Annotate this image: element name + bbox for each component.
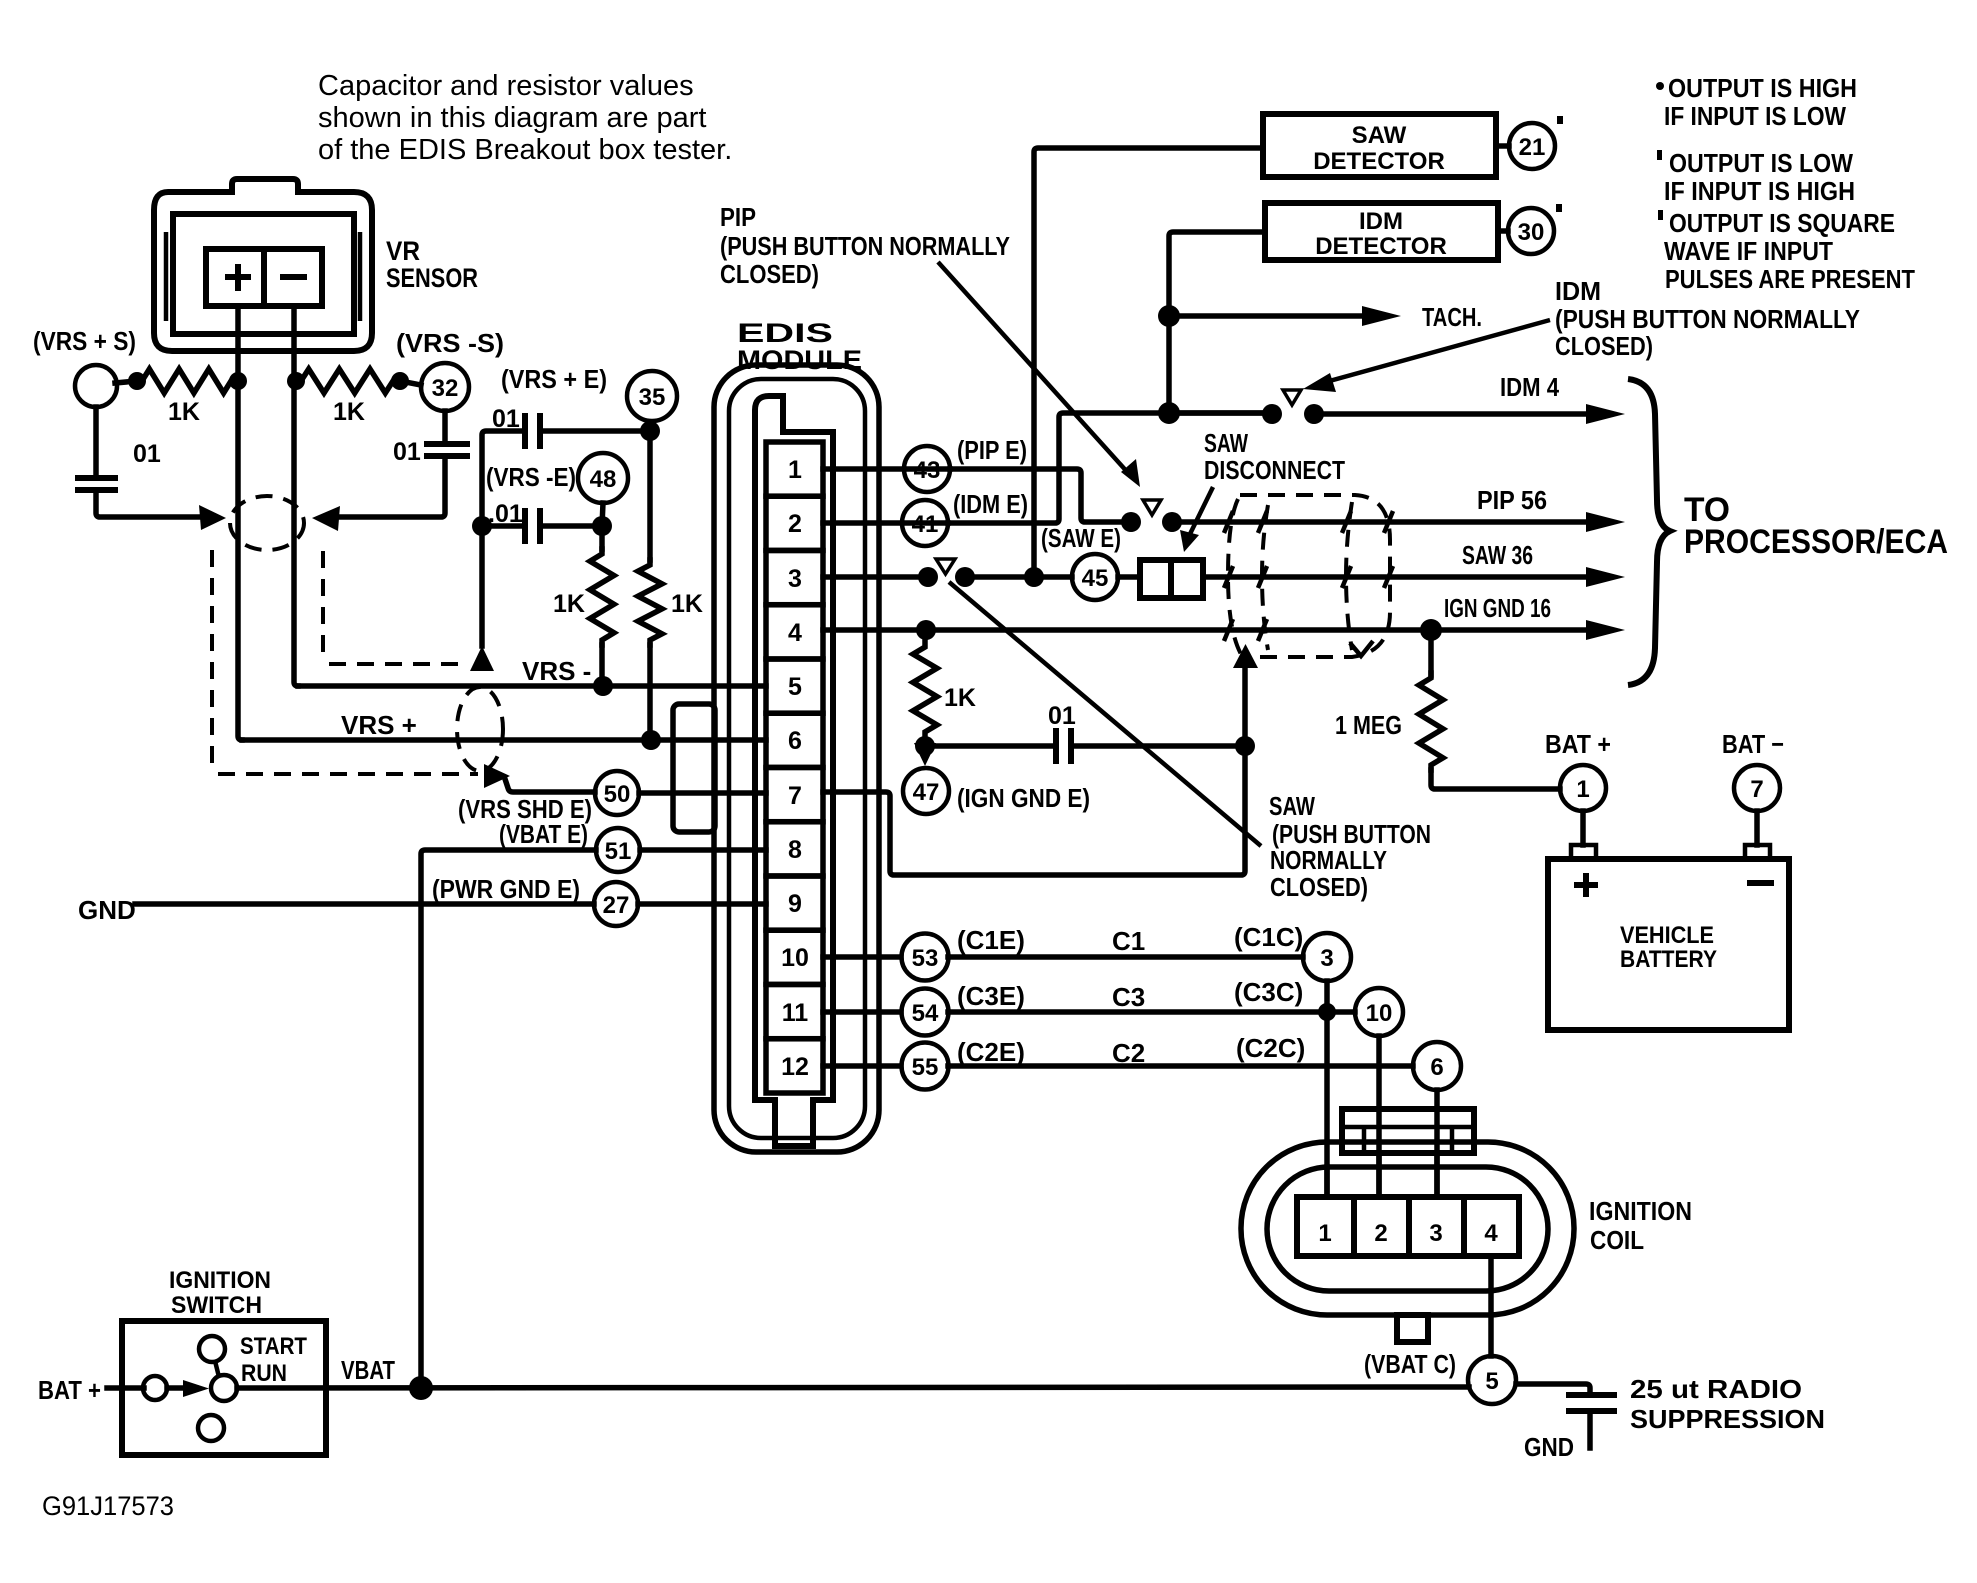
node dot PIP pushbutton right [1162, 512, 1182, 532]
arrowhead TACH [1362, 306, 1401, 326]
terminal circle 53 [902, 934, 949, 981]
EDIS connector second shell [729, 379, 865, 1138]
PIP pushbutton NC marker triangle [1143, 500, 1161, 515]
shield dashed ellipse around sensor wires [230, 496, 304, 550]
footnote mark circle 21 [1557, 116, 1563, 124]
capacitor C2 .01 right: lead [442, 411, 448, 444]
svg-text:RUN: RUN [241, 1360, 287, 1387]
wire VBAT E left and down to VBAT bus [421, 850, 596, 1388]
VR sensor inner housing [173, 214, 354, 334]
pin 12 box [766, 1039, 823, 1093]
svg-text:C1: C1 [1112, 926, 1145, 956]
node dot SAW wire / C5 [1235, 736, 1255, 756]
svg-text:53: 53 [912, 945, 939, 972]
wire circle 5 to radio suppression cap [1516, 1384, 1590, 1395]
svg-text:PROCESSOR/ECA: PROCESSOR/ECA [1684, 523, 1948, 561]
wire IDM detector to circle 30 [1498, 228, 1508, 234]
wire VRS+ bus to pin 6 [242, 737, 766, 743]
svg-text:51: 51 [605, 838, 632, 865]
svg-text:(IGN GND E): (IGN GND E) [957, 783, 1090, 813]
svg-text:47: 47 [913, 779, 940, 806]
svg-text:SAW 36: SAW 36 [1462, 540, 1533, 570]
terminal circle 1 (BAT+) [1560, 765, 1606, 811]
EDIS connector outer shell [714, 365, 879, 1152]
node dot VRS-E left [472, 516, 492, 536]
svg-text:GND: GND [1524, 1432, 1574, 1462]
wire SAW E line to circle 45 [965, 574, 1072, 580]
svg-text:IDM: IDM [1555, 276, 1601, 306]
VR sensor shell side flange marks [166, 232, 360, 321]
svg-text:01: 01 [393, 438, 421, 466]
svg-text:IF INPUT IS LOW: IF INPUT IS LOW [1664, 101, 1846, 131]
wire pin 4 (IGN GND) line [823, 627, 1590, 633]
svg-text:1: 1 [1318, 1220, 1331, 1247]
svg-text:GND: GND [78, 895, 136, 925]
svg-text:6: 6 [788, 727, 802, 755]
svg-text:43: 43 [914, 457, 941, 484]
terminal circle 41 (IDM E) [902, 500, 948, 546]
svg-text:4: 4 [1484, 1220, 1498, 1247]
IDM pushbutton pointer diagonal [1315, 320, 1550, 385]
svg-text:(VRS -S): (VRS -S) [396, 328, 504, 358]
VR sensor minus terminal mark [280, 274, 307, 280]
svg-text:6: 6 [1430, 1054, 1443, 1081]
capacitor C3 01: left corner + plates [482, 431, 522, 526]
wire pin 8 to circle 51 [640, 847, 766, 853]
wire circle7 to battery post [1754, 811, 1760, 845]
svg-text:10: 10 [1366, 1000, 1393, 1027]
terminal circle VRS+S probe [75, 365, 117, 407]
capacitor C2 .01 plates [424, 444, 470, 456]
node dot VBAT riser [409, 1376, 433, 1400]
svg-text:(C1E): (C1E) [957, 925, 1025, 955]
pin 7 box [766, 768, 823, 822]
node dot IDM pushbutton right [1304, 404, 1324, 424]
node dot under circle 35 [640, 421, 660, 441]
node dot R5 bottom [915, 736, 935, 756]
svg-text:7: 7 [788, 782, 802, 810]
svg-text:(C3C): (C3C) [1234, 977, 1303, 1007]
pin 1 box [766, 442, 823, 496]
terminal circle 43 (PIP E) [904, 446, 950, 492]
svg-text:DETECTOR: DETECTOR [1313, 148, 1445, 175]
SAW pushbutton pointer diagonal [949, 582, 1261, 846]
svg-text:shown in this diagram are part: shown in this diagram are part [318, 102, 706, 134]
svg-text:OUTPUT IS HIGH: OUTPUT IS HIGH [1668, 73, 1857, 103]
shield tube inner arc left [1262, 505, 1268, 650]
wire circle48 stub [602, 503, 603, 526]
note: capacitor/resistor values note [318, 70, 732, 166]
wire IDM E right and up to IDM 4 line [948, 413, 1263, 523]
svg-text:25 ut RADIO: 25 ut RADIO [1630, 1374, 1802, 1404]
svg-text:(PUSH BUTTON NORMALLY: (PUSH BUTTON NORMALLY [720, 231, 1010, 261]
wire pin 2 (IDM E) to circle 41 [823, 520, 948, 526]
svg-text:NORMALLY: NORMALLY [1270, 845, 1387, 875]
svg-text:SUPPRESSION: SUPPRESSION [1630, 1404, 1825, 1434]
node junction dot minus-terminal/resistor [287, 372, 305, 390]
SAW pushbutton NC marker triangle [936, 559, 955, 574]
svg-text:WAVE IF INPUT: WAVE IF INPUT [1664, 236, 1833, 266]
battery post - [1745, 845, 1770, 859]
node dot pin4/1K [916, 620, 936, 640]
svg-text:5: 5 [788, 673, 802, 701]
wire and arrowhead to wiper [167, 1385, 196, 1391]
svg-text:(PIP E): (PIP E) [957, 435, 1027, 465]
svg-text:01: 01 [492, 405, 520, 433]
svg-text:9: 9 [788, 890, 802, 918]
VR sensor connector body outer shell [154, 179, 372, 351]
VR sensor terminal block [206, 249, 322, 306]
resistor R3 1K middle vertical [599, 526, 605, 549]
terminal circle 30 [1508, 208, 1554, 254]
arrowhead shield branch down at VRS-E stub [470, 646, 494, 671]
shielded cable dashed tube [1240, 495, 1390, 657]
svg-text:PULSES ARE PRESENT: PULSES ARE PRESENT [1665, 264, 1915, 294]
svg-text:35: 35 [639, 384, 666, 411]
node dot C3 junction [1318, 1003, 1336, 1021]
arrowhead IGN GND 16 [1586, 620, 1625, 640]
shield tick marks on lines [1224, 511, 1393, 641]
ignition coil pin row [1297, 1197, 1519, 1256]
shield tube left edge [1228, 499, 1242, 656]
wire VRS-E stub vertical [479, 526, 485, 646]
svg-text:IDM: IDM [1359, 208, 1403, 235]
wire C1 bottom to shield ellipse [96, 490, 205, 517]
svg-text:(C2E): (C2E) [957, 1037, 1025, 1067]
wire pin 7 jog to SAW pushbutton riser [823, 668, 1245, 875]
wire pin 9 to circle 27 [638, 901, 766, 907]
pin 5 box [766, 659, 823, 713]
wire pin 12 to circle 55 [823, 1063, 901, 1069]
terminal circle 54 [902, 989, 949, 1036]
node dot IDM4/detector junction [1158, 402, 1180, 424]
wire circle 45 to SAW disconnect [1118, 574, 1140, 580]
PIP pushbutton pointer diagonal [938, 262, 1130, 475]
arrowhead SAW riser up to shield [1233, 644, 1258, 668]
capacitor C5 01 plates [1056, 728, 1071, 764]
svg-text:2: 2 [788, 510, 802, 538]
svg-text:8: 8 [788, 836, 802, 864]
wire PIP E right and down to PIP 56 line [950, 469, 1122, 522]
svg-text:1K: 1K [168, 398, 200, 426]
svg-text:Capacitor and resistor values: Capacitor and resistor values [318, 70, 694, 102]
resistor R1 1K left [137, 369, 236, 393]
SAW detector box [1263, 114, 1496, 177]
vehicle battery box [1548, 859, 1789, 1030]
svg-text:IF INPUT IS HIGH: IF INPUT IS HIGH [1664, 176, 1855, 206]
EDIS connector pin holder outline [755, 396, 833, 1146]
wire SAW detector to circle 21 [1496, 143, 1509, 149]
node junction dot plus-terminal/resistor [229, 372, 247, 390]
svg-text:1 MEG: 1 MEG [1335, 710, 1402, 740]
svg-text:54: 54 [912, 1000, 939, 1027]
svg-text:BATTERY: BATTERY [1620, 946, 1717, 973]
svg-text:1K: 1K [553, 590, 585, 618]
wire pin 7 to circle 50 [639, 790, 766, 796]
wire IDM 4 line to processor [1314, 411, 1590, 417]
svg-text:SENSOR: SENSOR [386, 263, 478, 293]
wire circle 10 riser to coil pin 2 [1376, 1036, 1382, 1197]
svg-text:SAW: SAW [1352, 122, 1407, 149]
pin 3 box [766, 551, 823, 605]
svg-text:1: 1 [788, 456, 802, 484]
resistor R6 1 MEG [1428, 630, 1434, 675]
terminal circle 51 (VBAT E) [596, 828, 640, 872]
pin 9 box [766, 876, 823, 930]
wire IDM 4 line left segment [1169, 410, 1272, 416]
svg-text:3: 3 [788, 565, 802, 593]
svg-text:PIP: PIP [720, 202, 756, 232]
switch contact circle BAT [143, 1376, 167, 1400]
battery + mark [1574, 873, 1598, 897]
wire C3 row [948, 1009, 1355, 1015]
svg-text:11: 11 [782, 999, 809, 1027]
VR sensor plus terminal mark [225, 264, 251, 291]
svg-text:7: 7 [1750, 776, 1763, 803]
EDIS connector side tab loop [673, 704, 715, 832]
svg-text:(VRS + E): (VRS + E) [501, 364, 607, 394]
svg-text:3: 3 [1320, 945, 1333, 972]
wire circle 6 riser to coil pin 3 [1434, 1090, 1440, 1197]
wire R2 to circle 32 [400, 381, 421, 385]
wire SAW 36 line to processor [1203, 574, 1590, 580]
svg-text:32: 32 [432, 375, 459, 402]
svg-text:01: 01 [133, 440, 161, 468]
svg-text:C3: C3 [1112, 982, 1145, 1012]
svg-text:4: 4 [788, 619, 802, 647]
capacitor C1 .01 plates [75, 478, 118, 490]
svg-text:(SAW E): (SAW E) [1041, 523, 1121, 553]
svg-text:SAW: SAW [1204, 428, 1248, 458]
svg-text:G91J17573: G91J17573 [42, 1491, 174, 1521]
terminal circle 3 (C1C) [1303, 933, 1351, 981]
terminal circle 6 (C2C) [1413, 1042, 1461, 1090]
svg-text:IDM 4: IDM 4 [1500, 372, 1559, 402]
svg-text:CLOSED): CLOSED) [720, 259, 819, 289]
svg-text:.01: .01 [488, 500, 523, 528]
svg-text:BAT −: BAT − [1722, 729, 1784, 759]
resistor R2 1K right [296, 369, 398, 393]
pin 2 box [766, 496, 823, 550]
svg-text:50: 50 [604, 781, 631, 808]
arrowhead into shield right [312, 506, 340, 531]
footnote 1 [1656, 82, 1664, 90]
IDM detector box [1265, 203, 1498, 260]
ignition coil outer body [1241, 1142, 1574, 1315]
wire pin 3 (SAW E) to pushbutton [823, 574, 928, 580]
svg-text:BAT +: BAT + [1545, 729, 1611, 759]
wire R6 to circle 1 [1431, 770, 1560, 789]
svg-text:TACH.: TACH. [1422, 302, 1482, 332]
wire to circle 50 [505, 779, 595, 792]
node dot R3 bottom on VRS- bus [593, 676, 613, 696]
wire coil risers inside body [1327, 1153, 1437, 1197]
capacitor C5 01 line left [925, 743, 1053, 749]
footnote mark circle 30 [1556, 204, 1562, 212]
svg-text:41: 41 [912, 511, 939, 538]
wire C2 row [948, 1063, 1413, 1069]
terminal circle 47 (IGN GND E) [903, 768, 949, 814]
svg-text:48: 48 [590, 466, 617, 493]
switch START contact circle [199, 1336, 225, 1362]
ignition coil inner body [1267, 1167, 1548, 1291]
svg-text:27: 27 [603, 892, 630, 919]
terminal circle 7 (BAT-) [1734, 765, 1780, 811]
svg-text:VBAT: VBAT [341, 1355, 395, 1385]
wire VBAT bus [237, 1387, 1469, 1388]
svg-text:(IDM E): (IDM E) [953, 489, 1028, 519]
svg-text:(VRS -E): (VRS -E) [486, 462, 576, 492]
svg-text:VEHICLE: VEHICLE [1620, 922, 1714, 949]
pin 11 box [766, 985, 823, 1039]
svg-text:(PWR GND E): (PWR GND E) [432, 874, 580, 904]
battery post + [1571, 845, 1596, 859]
svg-text:3: 3 [1429, 1220, 1442, 1247]
wire circle 3 riser to coil pin 1 [1324, 981, 1330, 1197]
terminal circle 45 (SAW E) [1072, 554, 1118, 600]
svg-text:1K: 1K [944, 684, 976, 712]
shield tube bottom-right notch [1350, 641, 1373, 656]
terminal circle 21 [1509, 123, 1555, 169]
node dot VRS-E right under 48 [592, 516, 612, 536]
wire VRS- from sensor minus terminal down to VRS- bus [294, 306, 298, 686]
wire SAW detector to SAW E tap [1034, 148, 1263, 577]
resistor R4 1K right vertical [647, 431, 653, 560]
ignition coil bottom tab [1397, 1315, 1428, 1342]
terminal circle 10 (C3C) [1355, 988, 1403, 1036]
svg-text:PIP 56: PIP 56 [1477, 485, 1547, 515]
svg-text:VRS -: VRS - [522, 656, 591, 686]
svg-text:CLOSED): CLOSED) [1270, 872, 1368, 902]
wire C2 bottom to shield ellipse [332, 456, 445, 517]
svg-text:(VBAT E): (VBAT E) [499, 819, 588, 849]
wire TACH line [1169, 313, 1365, 319]
node dot R4 bottom on VRS+ bus [641, 730, 661, 750]
wire pin 1 (PIP E) to circle 43 [823, 466, 950, 472]
wire PIP 56 line to processor [1172, 519, 1590, 525]
ignition switch box [122, 1321, 326, 1455]
svg-text:DISCONNECT: DISCONNECT [1204, 455, 1345, 485]
node dot IGN GND / 1MEG tap [1420, 619, 1442, 641]
terminal circle 50 (VRS SHD E) [595, 771, 639, 815]
footnote 3 [1658, 210, 1663, 220]
terminal circle 5 (VBAT C) [1468, 1356, 1516, 1404]
svg-text:MODULE: MODULE [737, 345, 862, 375]
arrowhead PIP pointer [1121, 459, 1140, 487]
arrowhead SAW disconnect pointer [1180, 530, 1199, 552]
node dot IDM pushbutton left [1262, 404, 1282, 424]
wire circle1 to battery post [1580, 811, 1586, 845]
pin 8 box [766, 822, 823, 876]
svg-text:IGNITION: IGNITION [1589, 1196, 1692, 1226]
wire IDM detector left to TACH/IDM4 riser [1169, 232, 1265, 413]
wire BAT+ into switch [107, 1385, 144, 1391]
wire VRS- bus to pin 5 [298, 683, 766, 689]
brace to processor [1628, 379, 1670, 685]
node dot SAW detector tap [1024, 567, 1044, 587]
svg-text:OUTPUT IS LOW: OUTPUT IS LOW [1669, 148, 1853, 178]
shield dashed branch right run [323, 551, 460, 664]
svg-text:(VRS + S): (VRS + S) [33, 326, 136, 356]
terminal circle 27 (PWR GND E) [594, 882, 638, 926]
arrowhead shield drain to VRS SHD E [484, 764, 510, 788]
SAW disconnect connector boxes [1140, 560, 1171, 598]
svg-text:1K: 1K [333, 398, 365, 426]
svg-text:DETECTOR: DETECTOR [1315, 233, 1447, 260]
svg-text:of the EDIS Breakout box teste: of the EDIS Breakout box tester. [318, 134, 732, 166]
pin 10 box [766, 930, 823, 984]
svg-text:IGNITION: IGNITION [169, 1267, 271, 1294]
svg-text:(PUSH BUTTON NORMALLY: (PUSH BUTTON NORMALLY [1555, 304, 1860, 334]
wire GND line to circle 27 [135, 901, 594, 907]
arrowhead PIP 56 [1586, 512, 1625, 532]
svg-text:START: START [240, 1333, 307, 1360]
arrowhead IDM 4 [1586, 404, 1625, 424]
svg-text:SWITCH: SWITCH [171, 1292, 262, 1319]
svg-text:2: 2 [1374, 1220, 1387, 1247]
arrowhead R5 to circle 47 [914, 743, 936, 766]
svg-text:(C1C): (C1C) [1234, 922, 1303, 952]
svg-text:CLOSED): CLOSED) [1555, 331, 1653, 361]
switch wiper arm [215, 1361, 219, 1377]
shield dashed pass-through on VRS busses [457, 687, 503, 771]
svg-text:55: 55 [912, 1054, 939, 1081]
svg-text:OUTPUT IS SQUARE: OUTPUT IS SQUARE [1669, 208, 1895, 238]
ignition coil top connector [1342, 1109, 1474, 1153]
battery - mark [1747, 880, 1774, 886]
wire coil pin 4 down to circle 5 [1488, 1256, 1494, 1356]
node dot SAW pushbutton right [955, 567, 975, 587]
svg-text:EDIS: EDIS [737, 318, 833, 348]
resistor R5 1K below IGN GND [913, 642, 937, 737]
svg-text:SAW: SAW [1269, 791, 1315, 821]
terminal circle 35 (VRS + E) [627, 371, 677, 421]
capacitor C6 25uf plates [1566, 1395, 1617, 1411]
terminal circle 55 [902, 1043, 949, 1090]
wire C6 to GND [1587, 1411, 1593, 1448]
svg-text:VRS +: VRS + [341, 710, 417, 740]
capacitor C1 .01 left: lead [93, 407, 99, 478]
IDM pushbutton NC marker triangle [1283, 390, 1301, 405]
node dot SAW pushbutton left [918, 567, 938, 587]
arrowhead into shield left [199, 505, 226, 530]
wire VRS+ from sensor plus terminal down to VRS+ bus [238, 306, 242, 740]
arrowhead SAW 36 [1586, 567, 1625, 587]
SAW disconnect pointer [1190, 487, 1213, 534]
svg-text:BAT +: BAT + [38, 1375, 101, 1405]
arrowhead IDM pointer [1303, 373, 1336, 392]
wire probe to resistor [115, 381, 137, 383]
svg-text:IGN GND 16: IGN GND 16 [1444, 593, 1551, 623]
svg-text:(C2C): (C2C) [1236, 1033, 1305, 1063]
pin 6 box [766, 713, 823, 767]
footnote 2 [1657, 150, 1662, 160]
shield tube inner arc right [1346, 502, 1352, 650]
switch wiper circle [211, 1375, 237, 1401]
capacitor C4 .01 plates and line [482, 523, 522, 529]
capacitor C5 01 line right [1074, 743, 1245, 749]
node dot TACH tap [1158, 305, 1180, 327]
terminal circle 48 (VRS -E) [578, 453, 628, 503]
shield dashed drain wire left run [212, 550, 478, 774]
svg-text:10: 10 [781, 944, 809, 972]
wire pin 11 to circle 54 [823, 1009, 901, 1015]
node dot PIP pushbutton left [1121, 512, 1141, 532]
svg-text:(C3E): (C3E) [957, 981, 1025, 1011]
svg-text:COIL: COIL [1590, 1225, 1644, 1255]
svg-text:(VBAT C): (VBAT C) [1364, 1349, 1456, 1379]
svg-text:12: 12 [781, 1053, 809, 1081]
